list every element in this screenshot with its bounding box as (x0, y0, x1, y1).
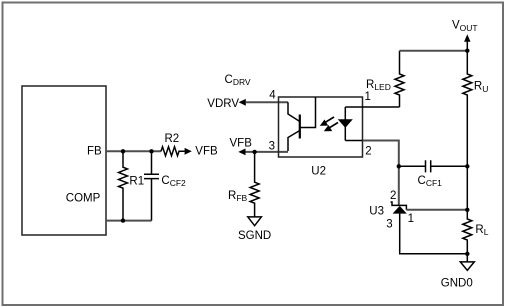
svg-text:GND0: GND0 (441, 277, 473, 289)
svg-text:4: 4 (269, 90, 276, 102)
svg-text:3: 3 (386, 219, 392, 231)
svg-text:1: 1 (408, 213, 414, 225)
svg-text:COMP: COMP (66, 192, 101, 204)
svg-text:U3: U3 (369, 205, 384, 217)
svg-text:2: 2 (365, 146, 371, 158)
svg-text:R2: R2 (165, 133, 180, 145)
svg-text:VFB: VFB (230, 137, 253, 149)
svg-text:2: 2 (390, 190, 396, 202)
svg-text:VDRV: VDRV (207, 98, 239, 110)
svg-text:3: 3 (269, 141, 275, 153)
svg-text:R1: R1 (129, 176, 144, 188)
svg-text:RLED: RLED (366, 79, 391, 92)
svg-text:SGND: SGND (238, 230, 271, 242)
svg-text:RL: RL (475, 224, 488, 237)
svg-text:FB: FB (87, 146, 102, 158)
svg-text:1: 1 (365, 91, 371, 103)
svg-text:CCF1: CCF1 (418, 175, 443, 188)
svg-text:U2: U2 (311, 166, 326, 178)
svg-text:VFB: VFB (195, 146, 218, 158)
